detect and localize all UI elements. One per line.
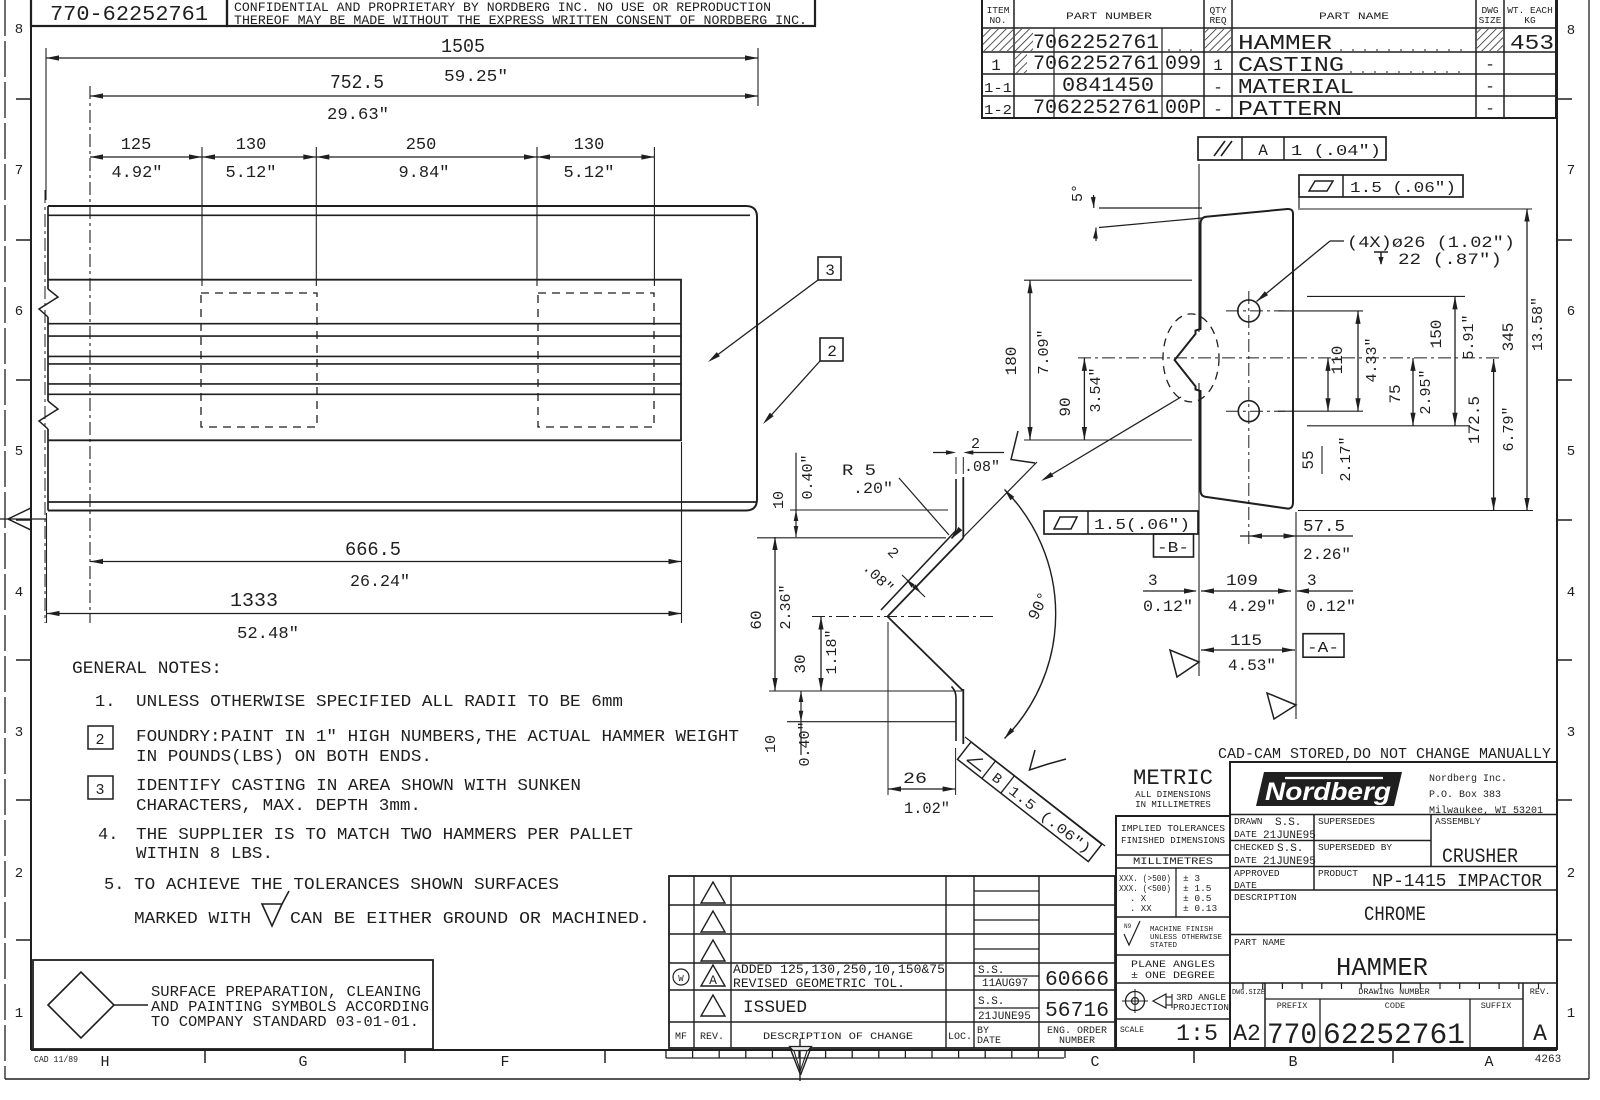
svg-text:IN POUNDS(LBS) ON BOTH ENDS.: IN POUNDS(LBS) ON BOTH ENDS. [136, 748, 432, 767]
svg-text:8: 8 [1567, 23, 1575, 39]
hole lower circle [1238, 401, 1259, 422]
svg-text:-A-: -A- [1307, 640, 1339, 657]
svg-text:752.5: 752.5 [330, 72, 384, 94]
svg-text:6: 6 [15, 304, 23, 320]
sheet outer trim edge left [4, 0, 6, 1079]
extension line y=209 top right [1298, 208, 1532, 210]
flatness frame 1.5 (.06in) top [1299, 175, 1463, 197]
svg-text:SUFFIX: SUFFIX [1481, 1001, 1512, 1011]
svg-text:HAMMER: HAMMER [1336, 953, 1428, 983]
dim 90 / 3.54in end view [1083, 358, 1085, 440]
svg-text:-: - [1213, 79, 1223, 97]
svg-text:XXX. (>500): XXX. (>500) [1119, 874, 1171, 884]
sheet border right [1556, 0, 1558, 1050]
extension line top face y=510 [790, 509, 948, 511]
by/date mid lines [974, 890, 1039, 892]
right face extension line below [1295, 512, 1297, 719]
grooved middle band outline [48, 280, 681, 441]
leader from ellipse to groove detail [1044, 397, 1181, 479]
extension line x=46 left end [45, 48, 47, 200]
svg-text:CRUSHER: CRUSHER [1442, 846, 1518, 869]
svg-text:62252761: 62252761 [1057, 97, 1159, 120]
svg-text:PROJECTION: PROJECTION [1173, 1003, 1229, 1013]
svg-text:1333: 1333 [230, 590, 278, 612]
dim 2 / .08in top of face [933, 452, 951, 454]
hole2 horizontal centerline [1226, 410, 1285, 412]
svg-text:-: - [1485, 56, 1495, 74]
segment dim line 125/130/250/130 [90, 156, 654, 158]
sheet outer trim edge right [1588, 0, 1590, 1079]
svg-text:F: F [500, 1054, 509, 1071]
dim 110 / 4.33in [1357, 311, 1359, 411]
svg-text:SUPERSEDED BY: SUPERSEDED BY [1318, 842, 1392, 853]
svg-text:P.O. Box 383: P.O. Box 383 [1429, 790, 1501, 801]
svg-text:PLANE ANGLES: PLANE ANGLES [1131, 960, 1215, 971]
svg-text:REV.: REV. [700, 1032, 724, 1043]
svg-text:WITHIN 8 LBS.: WITHIN 8 LBS. [136, 845, 273, 864]
dim 60 / 2.36in [774, 537, 776, 691]
svg-text:00P: 00P [1165, 97, 1201, 120]
revision A triangle [701, 965, 725, 986]
svg-text:A: A [1258, 142, 1268, 160]
svg-text:B: B [1288, 1054, 1297, 1071]
svg-text:NP-1415 IMPACTOR: NP-1415 IMPACTOR [1372, 872, 1542, 892]
svg-text:70: 70 [1033, 53, 1057, 76]
svg-text:DATE: DATE [1234, 855, 1257, 866]
svg-text:LOC.: LOC. [948, 1032, 972, 1043]
extension line bottom face y=721.7 [787, 721, 956, 723]
issued triangle [701, 995, 725, 1016]
svg-text:7.09": 7.09" [1036, 329, 1053, 374]
svg-text:S.S.: S.S. [1277, 843, 1303, 855]
svg-text:3: 3 [1567, 725, 1575, 741]
svg-text:8: 8 [15, 22, 23, 38]
tolerance column internal [1116, 854, 1230, 856]
groove detail offset upper slant [881, 532, 955, 611]
svg-text:-: - [1485, 78, 1495, 96]
svg-text:SUPERSEDES: SUPERSEDES [1318, 816, 1375, 827]
svg-text:DESCRIPTION: DESCRIPTION [1234, 892, 1297, 903]
dim 55 / 2.17in [1327, 358, 1329, 411]
svg-text:30: 30 [792, 654, 810, 673]
svg-text:DATE: DATE [1234, 880, 1257, 891]
svg-text:-: - [1485, 100, 1495, 118]
svg-text:56716: 56716 [1045, 1000, 1109, 1023]
svg-text:250: 250 [406, 136, 437, 155]
svg-text:DATE: DATE [977, 1036, 1001, 1047]
dim 115 / 4.53in [1201, 649, 1295, 651]
svg-text:CHARACTERS, MAX. DEPTH 3mm.: CHARACTERS, MAX. DEPTH 3mm. [136, 797, 421, 816]
svg-text:770: 770 [1267, 1019, 1317, 1053]
upper slant extension + machining mark [963, 462, 1037, 537]
extension centreline x=90 dash-dot [89, 86, 91, 623]
svg-text:REVISED GEOMETRIC TOL.: REVISED GEOMETRIC TOL. [733, 976, 905, 991]
svg-text:NUMBER: NUMBER [1059, 1036, 1095, 1047]
svg-text:MILLIMETRES: MILLIMETRES [1133, 857, 1213, 868]
svg-text:75: 75 [1387, 384, 1405, 403]
svg-text:1 (.04"): 1 (.04") [1291, 143, 1381, 160]
lower slant leader with angularity frame [965, 737, 1105, 846]
svg-text:5.91": 5.91" [1461, 314, 1478, 359]
extension line y=280.2 [1024, 279, 1192, 281]
svg-text:4: 4 [1567, 585, 1575, 601]
svg-text:172.5: 172.5 [1466, 396, 1484, 444]
left edge flag arrow on border [8, 508, 31, 530]
svg-text:DRAWING NUMBER: DRAWING NUMBER [1358, 987, 1429, 997]
svg-text:1.02": 1.02" [904, 800, 950, 818]
svg-text:130: 130 [236, 136, 267, 155]
svg-text:A2: A2 [1233, 1021, 1261, 1047]
svg-text:453: 453 [1510, 33, 1554, 56]
svg-text:6: 6 [1567, 304, 1575, 320]
svg-text:ALL DIMENSIONS: ALL DIMENSIONS [1135, 790, 1211, 800]
svg-text:MATERIAL: MATERIAL [1238, 77, 1354, 100]
svg-text:ADDED 125,130,250,10,150&75: ADDED 125,130,250,10,150&75 [733, 962, 945, 977]
svg-text:CODE: CODE [1385, 1001, 1405, 1011]
svg-text:DATE: DATE [1234, 829, 1257, 840]
svg-text:IDENTIFY CASTING IN AREA SHOWN: IDENTIFY CASTING IN AREA SHOWN WITH SUNK… [136, 777, 581, 796]
revision A stamp circle [673, 969, 689, 985]
depth symbol + 22 (.87in) [1374, 252, 1388, 264]
band groove line 6 [48, 393, 681, 395]
casting id area dashed rect left (note 3) [201, 293, 317, 427]
svg-text:62252761: 62252761 [1323, 1019, 1465, 1053]
svg-text:57.5: 57.5 [1303, 518, 1345, 537]
svg-text:150: 150 [1428, 320, 1446, 349]
hole extension lines right [1278, 310, 1363, 312]
svg-text:. X: . X [1130, 894, 1147, 904]
svg-text:Nordberg Inc.: Nordberg Inc. [1429, 773, 1507, 785]
svg-text:29.63": 29.63" [327, 106, 389, 125]
svg-text:1:5: 1:5 [1176, 1021, 1218, 1047]
svg-text:0841450: 0841450 [1062, 75, 1154, 98]
svg-text:CASTING: CASTING [1238, 55, 1344, 78]
svg-text:STATED: STATED [1150, 942, 1178, 950]
svg-text:± 0.13: ± 0.13 [1183, 903, 1218, 914]
svg-text:666.5: 666.5 [345, 539, 401, 561]
zone ticks bottom margin [204, 1050, 206, 1063]
groove detail lower vertical faces [962, 689, 964, 744]
svg-text:4.: 4. [98, 826, 118, 845]
dim 26 / 1.02in [887, 622, 889, 795]
part horizontal centerline dash-dot [1078, 357, 1500, 359]
svg-text:70: 70 [1033, 32, 1057, 55]
extension line x=47 below part [46, 513, 48, 623]
svg-text:115: 115 [1230, 632, 1262, 650]
svg-text:52.48": 52.48" [237, 625, 299, 644]
svg-text:59.25": 59.25" [444, 68, 508, 87]
dim 1333 / 52.48in [47, 613, 682, 615]
dim 10 / 0.40in upper [795, 453, 797, 537]
svg-text:2.36": 2.36" [778, 584, 795, 629]
svg-text:R 5: R 5 [842, 462, 876, 480]
svg-text:70: 70 [1033, 97, 1057, 120]
note 3 flag box [88, 776, 113, 799]
svg-text:6.79": 6.79" [1501, 406, 1518, 451]
svg-text:4.53": 4.53" [1228, 657, 1276, 675]
extension line y=440 [1024, 439, 1192, 441]
svg-text:4: 4 [15, 585, 23, 601]
left margin centerline dash-dot x=45 [44, 190, 46, 623]
parts row 1 hatches [983, 29, 1013, 51]
svg-text:S.S.: S.S. [1275, 817, 1301, 829]
svg-text:3: 3 [1148, 572, 1158, 590]
svg-text:W: W [678, 974, 684, 984]
hole vertical centerline dash-dot [1248, 291, 1250, 545]
svg-text:9.84": 9.84" [398, 164, 449, 183]
band groove line 2 [48, 335, 681, 337]
svg-text:60666: 60666 [1045, 969, 1109, 992]
svg-text:90: 90 [1057, 397, 1075, 416]
svg-text:CAN BE EITHER GROUND OR MACHIN: CAN BE EITHER GROUND OR MACHINED. [290, 910, 650, 929]
svg-text:DESCRIPTION OF CHANGE: DESCRIPTION OF CHANGE [763, 1031, 913, 1043]
svg-text:4263: 4263 [1535, 1054, 1561, 1066]
dim 109 / 4.29in [1201, 590, 1291, 592]
svg-text:ISSUED: ISSUED [743, 998, 807, 1018]
svg-text:2: 2 [827, 343, 837, 361]
extension line x=758 right end [757, 48, 759, 106]
svg-text:PRODUCT: PRODUCT [1318, 868, 1358, 879]
parts list table frame [982, 0, 1556, 118]
band extension lines right [1307, 295, 1465, 297]
svg-text:2.17": 2.17" [1338, 436, 1355, 481]
dim 150 / 5.91in [1454, 296, 1456, 425]
svg-text:(4X)ø26 (1.02"): (4X)ø26 (1.02") [1347, 234, 1515, 252]
svg-text:0.40": 0.40" [800, 454, 817, 499]
sheet border bottom [31, 1049, 1557, 1051]
svg-text:FINISHED DIMENSIONS: FINISHED DIMENSIONS [1121, 835, 1225, 846]
svg-text:FOUNDRY:PAINT IN 1" HIGH NUMBE: FOUNDRY:PAINT IN 1" HIGH NUMBERS,THE ACT… [136, 728, 739, 747]
svg-text:099: 099 [1165, 53, 1201, 76]
svg-text:1.5(.06"): 1.5(.06") [1094, 517, 1190, 534]
nordberg logo [1256, 772, 1402, 806]
svg-text:A: A [1533, 1021, 1547, 1047]
revision triangles empty rows [701, 882, 725, 903]
svg-text:7: 7 [1567, 163, 1575, 179]
dim 75 / 2.95in [1412, 358, 1414, 426]
dim 172.5 / 6.79in [1493, 359, 1495, 511]
svg-text:ASSEMBLY: ASSEMBLY [1435, 816, 1481, 827]
90 degree arc [1005, 490, 1056, 739]
title block outer frame [1230, 762, 1557, 1048]
dim 752.5 half length [90, 95, 758, 97]
svg-text:PATTERN: PATTERN [1238, 99, 1342, 122]
svg-text:MF: MF [675, 1032, 687, 1043]
svg-text:4.29": 4.29" [1228, 598, 1276, 616]
svg-text:THE SUPPLIER IS TO MATCH TWO H: THE SUPPLIER IS TO MATCH TWO HAMMERS PER… [136, 826, 633, 845]
tolerance column frame [1116, 816, 1230, 1048]
svg-text:5.12": 5.12" [563, 164, 614, 183]
svg-text:1.5 (.06"): 1.5 (.06") [1350, 180, 1456, 197]
svg-text:TO COMPANY STANDARD 03-01-01.: TO COMPANY STANDARD 03-01-01. [151, 1014, 419, 1031]
dim 666.5 / 26.24in [90, 561, 682, 563]
svg-text:2.26": 2.26" [1303, 546, 1351, 564]
svg-text:A: A [709, 973, 717, 988]
band groove line 4 [48, 363, 681, 365]
svg-text:PREFIX: PREFIX [1277, 1001, 1308, 1011]
dashed detail ellipse around V-notch [1163, 314, 1219, 402]
sheet outer trim edge bottom [5, 1078, 1589, 1080]
svg-text:SCALE: SCALE [1120, 1026, 1144, 1035]
svg-text:60: 60 [748, 610, 766, 629]
groove detail lower V slant [888, 617, 964, 692]
scale ruler strip on bottom border [666, 1057, 1064, 1059]
hole upper circle [1238, 300, 1260, 322]
svg-text:.08": .08" [964, 459, 1000, 476]
svg-text:4.92": 4.92" [111, 164, 162, 183]
sheet border left [30, 0, 32, 1050]
svg-text:1: 1 [1567, 1006, 1575, 1022]
svg-text:2: 2 [971, 436, 980, 453]
band groove line 5 [48, 383, 681, 385]
svg-text:MARKED WITH: MARKED WITH [134, 910, 251, 929]
svg-text:13.58": 13.58" [1530, 297, 1547, 351]
svg-text:TO ACHIEVE THE TOLERANCES SHOW: TO ACHIEVE THE TOLERANCES SHOWN SURFACES [134, 876, 559, 895]
svg-text:109: 109 [1226, 572, 1258, 590]
svg-text:METRIC: METRIC [1133, 766, 1213, 791]
extension line x=654 [653, 147, 655, 286]
svg-text:10: 10 [771, 491, 788, 509]
svg-text:THEREOF MAY BE MADE WITHOUT TH: THEREOF MAY BE MADE WITHOUT THE EXPRESS … [234, 14, 807, 28]
svg-text:CHECKED: CHECKED [1234, 842, 1274, 853]
surface preparation note box [33, 960, 433, 1049]
svg-text:H: H [100, 1054, 109, 1071]
svg-text:GENERAL NOTES:: GENERAL NOTES: [72, 659, 222, 679]
svg-text:3RD ANGLE: 3RD ANGLE [1176, 993, 1226, 1003]
svg-text:S.S.: S.S. [978, 965, 1004, 977]
parallelism frame // A 1(.04in) [1198, 137, 1386, 160]
svg-text:11AUG97: 11AUG97 [982, 978, 1028, 990]
svg-text:0.40": 0.40" [797, 721, 814, 766]
drawing number row [1264, 983, 1266, 1048]
svg-text:1: 1 [991, 57, 1001, 75]
svg-text:5°: 5° [1070, 184, 1087, 202]
extension line y=510.5 bottom right [1298, 510, 1533, 512]
svg-text:N9: N9 [1124, 923, 1132, 930]
svg-text:UNLESS OTHERWISE: UNLESS OTHERWISE [1150, 934, 1223, 942]
svg-text:PART NUMBER: PART NUMBER [1066, 12, 1152, 23]
groove detail main face upper [962, 477, 964, 538]
svg-text:55: 55 [1300, 450, 1318, 469]
extension line x=316 [315, 147, 317, 286]
svg-text:3: 3 [825, 262, 835, 280]
svg-text:1: 1 [1213, 57, 1223, 75]
svg-text:62252761: 62252761 [1057, 32, 1159, 55]
svg-text:DWG.SIZE: DWG.SIZE [1232, 989, 1265, 997]
hammer plan view outer outline [48, 206, 757, 511]
svg-text:110: 110 [1329, 346, 1347, 375]
svg-text:3: 3 [1307, 572, 1317, 590]
svg-text:1: 1 [15, 1006, 23, 1022]
svg-text:IN MILLIMETRES: IN MILLIMETRES [1135, 800, 1211, 810]
dim 3 / 0.12in right [1297, 590, 1353, 592]
svg-text:1505: 1505 [441, 36, 485, 58]
dim 2 / .08in on slant (rotated) [902, 575, 925, 597]
svg-text:345: 345 [1500, 323, 1518, 352]
svg-text:MACHINE FINISH: MACHINE FINISH [1150, 926, 1213, 934]
hole callout (4X)dia26 [1257, 241, 1331, 302]
svg-text:-B-: -B- [1157, 540, 1189, 557]
svg-text:0.12": 0.12" [1143, 598, 1193, 616]
svg-text:5.12": 5.12" [225, 164, 276, 183]
dim 10 / 0.40in lower [800, 691, 802, 755]
end view outline [1175, 209, 1293, 509]
svg-text:1-2: 1-2 [984, 103, 1012, 119]
dim 57.5 / 2.26in below end view [1240, 535, 1353, 537]
svg-text:G: G [298, 1054, 307, 1071]
hammer plan inner bottom edge [48, 501, 757, 503]
svg-text:C: C [1090, 1054, 1099, 1071]
casting id area dashed rect right (note 3) [538, 293, 654, 427]
svg-text:± ONE DEGREE: ± ONE DEGREE [1131, 971, 1215, 982]
svg-text:PART NAME: PART NAME [1234, 937, 1286, 948]
svg-text:UNLESS OTHERWISE SPECIFIED ALL: UNLESS OTHERWISE SPECIFIED ALL RADII TO … [136, 693, 623, 712]
svg-text:XXX. (<500): XXX. (<500) [1119, 884, 1171, 894]
datum -A- box [1303, 634, 1344, 658]
svg-text:180: 180 [1003, 347, 1021, 376]
datum B face line vertical [1198, 164, 1200, 250]
datum -B- box [1154, 534, 1194, 557]
groove detail upper V slant [888, 538, 964, 617]
svg-text:5: 5 [15, 444, 23, 460]
svg-text:7: 7 [15, 163, 23, 179]
svg-text:REQ: REQ [1209, 15, 1226, 26]
dim 345 / 13.58in [1526, 209, 1528, 512]
hammer plan left break edge with zigzags [47, 206, 49, 289]
svg-text:0.12": 0.12" [1306, 598, 1356, 616]
svg-text:130: 130 [574, 136, 605, 155]
machine finish symbol + note [1124, 921, 1140, 945]
extension line upper step y=537.8 [757, 537, 946, 539]
svg-text:.20": .20" [853, 480, 893, 498]
title block grid lines [1230, 814, 1557, 816]
svg-text:22 (.87"): 22 (.87") [1398, 251, 1502, 269]
svg-text:1-1: 1-1 [984, 81, 1012, 97]
svg-text:1.18": 1.18" [824, 629, 841, 674]
svg-text:REV.: REV. [1530, 987, 1550, 997]
svg-text:IMPLIED TOLERANCES: IMPLIED TOLERANCES [1121, 823, 1225, 834]
svg-text:APPROVED: APPROVED [1234, 868, 1280, 879]
extension line x=681.5 below band [681, 442, 683, 623]
groove detail offset face upper (2mm wear line) [952, 479, 957, 539]
band groove line 1 [48, 323, 681, 325]
svg-text:HAMMER: HAMMER [1238, 33, 1332, 56]
svg-text:21JUNE95: 21JUNE95 [978, 1011, 1031, 1023]
revision table frame [669, 876, 1115, 1048]
extension line x=202 [201, 147, 203, 286]
band groove line 3 [48, 355, 681, 357]
svg-text:CAD 11/89: CAD 11/89 [34, 1055, 78, 1065]
svg-text:3.54": 3.54" [1088, 367, 1105, 412]
svg-text:125: 125 [121, 136, 152, 155]
svg-text:CAD-CAM STORED,DO NOT CHANGE M: CAD-CAM STORED,DO NOT CHANGE MANUALLY [1218, 747, 1551, 763]
svg-text:26.24": 26.24" [350, 573, 410, 592]
drawing number box 770-62252761 [31, 0, 227, 26]
svg-text:2: 2 [95, 732, 104, 749]
note 2 callout box with leader [820, 338, 843, 361]
extension line lower step y=691 [769, 690, 962, 692]
issued flag below border [799, 1039, 801, 1081]
svg-text:A: A [1484, 1054, 1493, 1071]
note 2 flag box [88, 726, 113, 749]
machining checkmark left face [1170, 650, 1199, 677]
dim 180 / 7.09in end view [1029, 280, 1031, 440]
machining mark at lower extension end [1030, 750, 1067, 770]
svg-text:NO.: NO. [989, 15, 1006, 26]
svg-text:Nordberg: Nordberg [1265, 778, 1391, 806]
svg-text:26: 26 [903, 770, 927, 788]
flatness frame 1.5(.06in) at datum B [1044, 511, 1198, 534]
